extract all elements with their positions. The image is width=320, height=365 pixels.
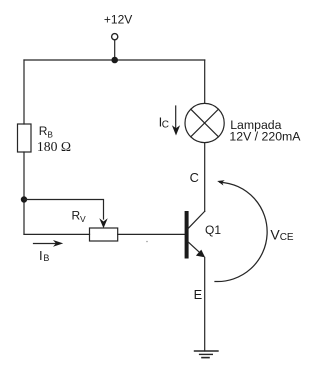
junction top rail <box>111 57 118 64</box>
wire left down to RB <box>23 60 25 124</box>
svg-text:180 Ω: 180 Ω <box>37 139 71 154</box>
junction node left <box>21 196 27 202</box>
current IC arrow <box>175 106 177 128</box>
svg-text:12V / 220mA: 12V / 220mA <box>229 130 301 144</box>
wire RB down to base corner <box>23 152 25 234</box>
label RB <box>39 124 54 140</box>
wire top rail <box>24 59 205 61</box>
label IC <box>159 114 169 130</box>
lamp X stroke 1 <box>191 109 219 137</box>
wire junction to wiper <box>24 200 104 220</box>
wire RV to base <box>118 233 185 235</box>
svg-text:V: V <box>80 214 86 224</box>
wire collector up to lamp <box>204 143 206 212</box>
current IB arrow <box>34 243 58 245</box>
svg-text:B: B <box>43 253 49 263</box>
VCE arrowhead <box>217 180 225 185</box>
label VCE <box>270 227 294 243</box>
svg-text:+12V: +12V <box>104 13 132 27</box>
ground bar 2 <box>200 353 213 355</box>
label Lampada <box>229 118 301 144</box>
terminal +12V <box>112 34 118 40</box>
svg-text:E: E <box>194 287 203 302</box>
emitter arrow <box>196 250 205 258</box>
wire rail down to lamp <box>204 60 206 103</box>
transistor Q1 collector lead <box>188 211 205 228</box>
wire bottom left to RV <box>24 233 90 235</box>
ground bar 3 <box>202 357 209 359</box>
svg-text:C: C <box>190 170 199 185</box>
transistor Q1 emitter lead <box>188 242 201 254</box>
svg-text:R: R <box>39 124 48 138</box>
ground bar 1 <box>195 350 219 352</box>
svg-text:B: B <box>47 130 53 140</box>
VCE arc <box>215 182 267 281</box>
stray speck <box>146 241 148 243</box>
potentiometer RV <box>90 228 118 241</box>
svg-text:I: I <box>39 248 43 263</box>
resistor RB <box>18 124 32 152</box>
transistor Q1 base bar <box>185 211 189 259</box>
wiper arrow onto RV <box>99 218 107 228</box>
svg-text:CE: CE <box>280 232 294 243</box>
wire emitter down to ground <box>204 258 206 352</box>
label RV <box>72 209 87 224</box>
lamp X stroke 2 <box>191 109 219 137</box>
wire terminal to top rail <box>114 40 116 60</box>
lamp circle <box>185 103 224 142</box>
svg-text:C: C <box>162 119 169 130</box>
svg-text:Q1: Q1 <box>205 223 221 237</box>
label IB <box>39 248 49 263</box>
